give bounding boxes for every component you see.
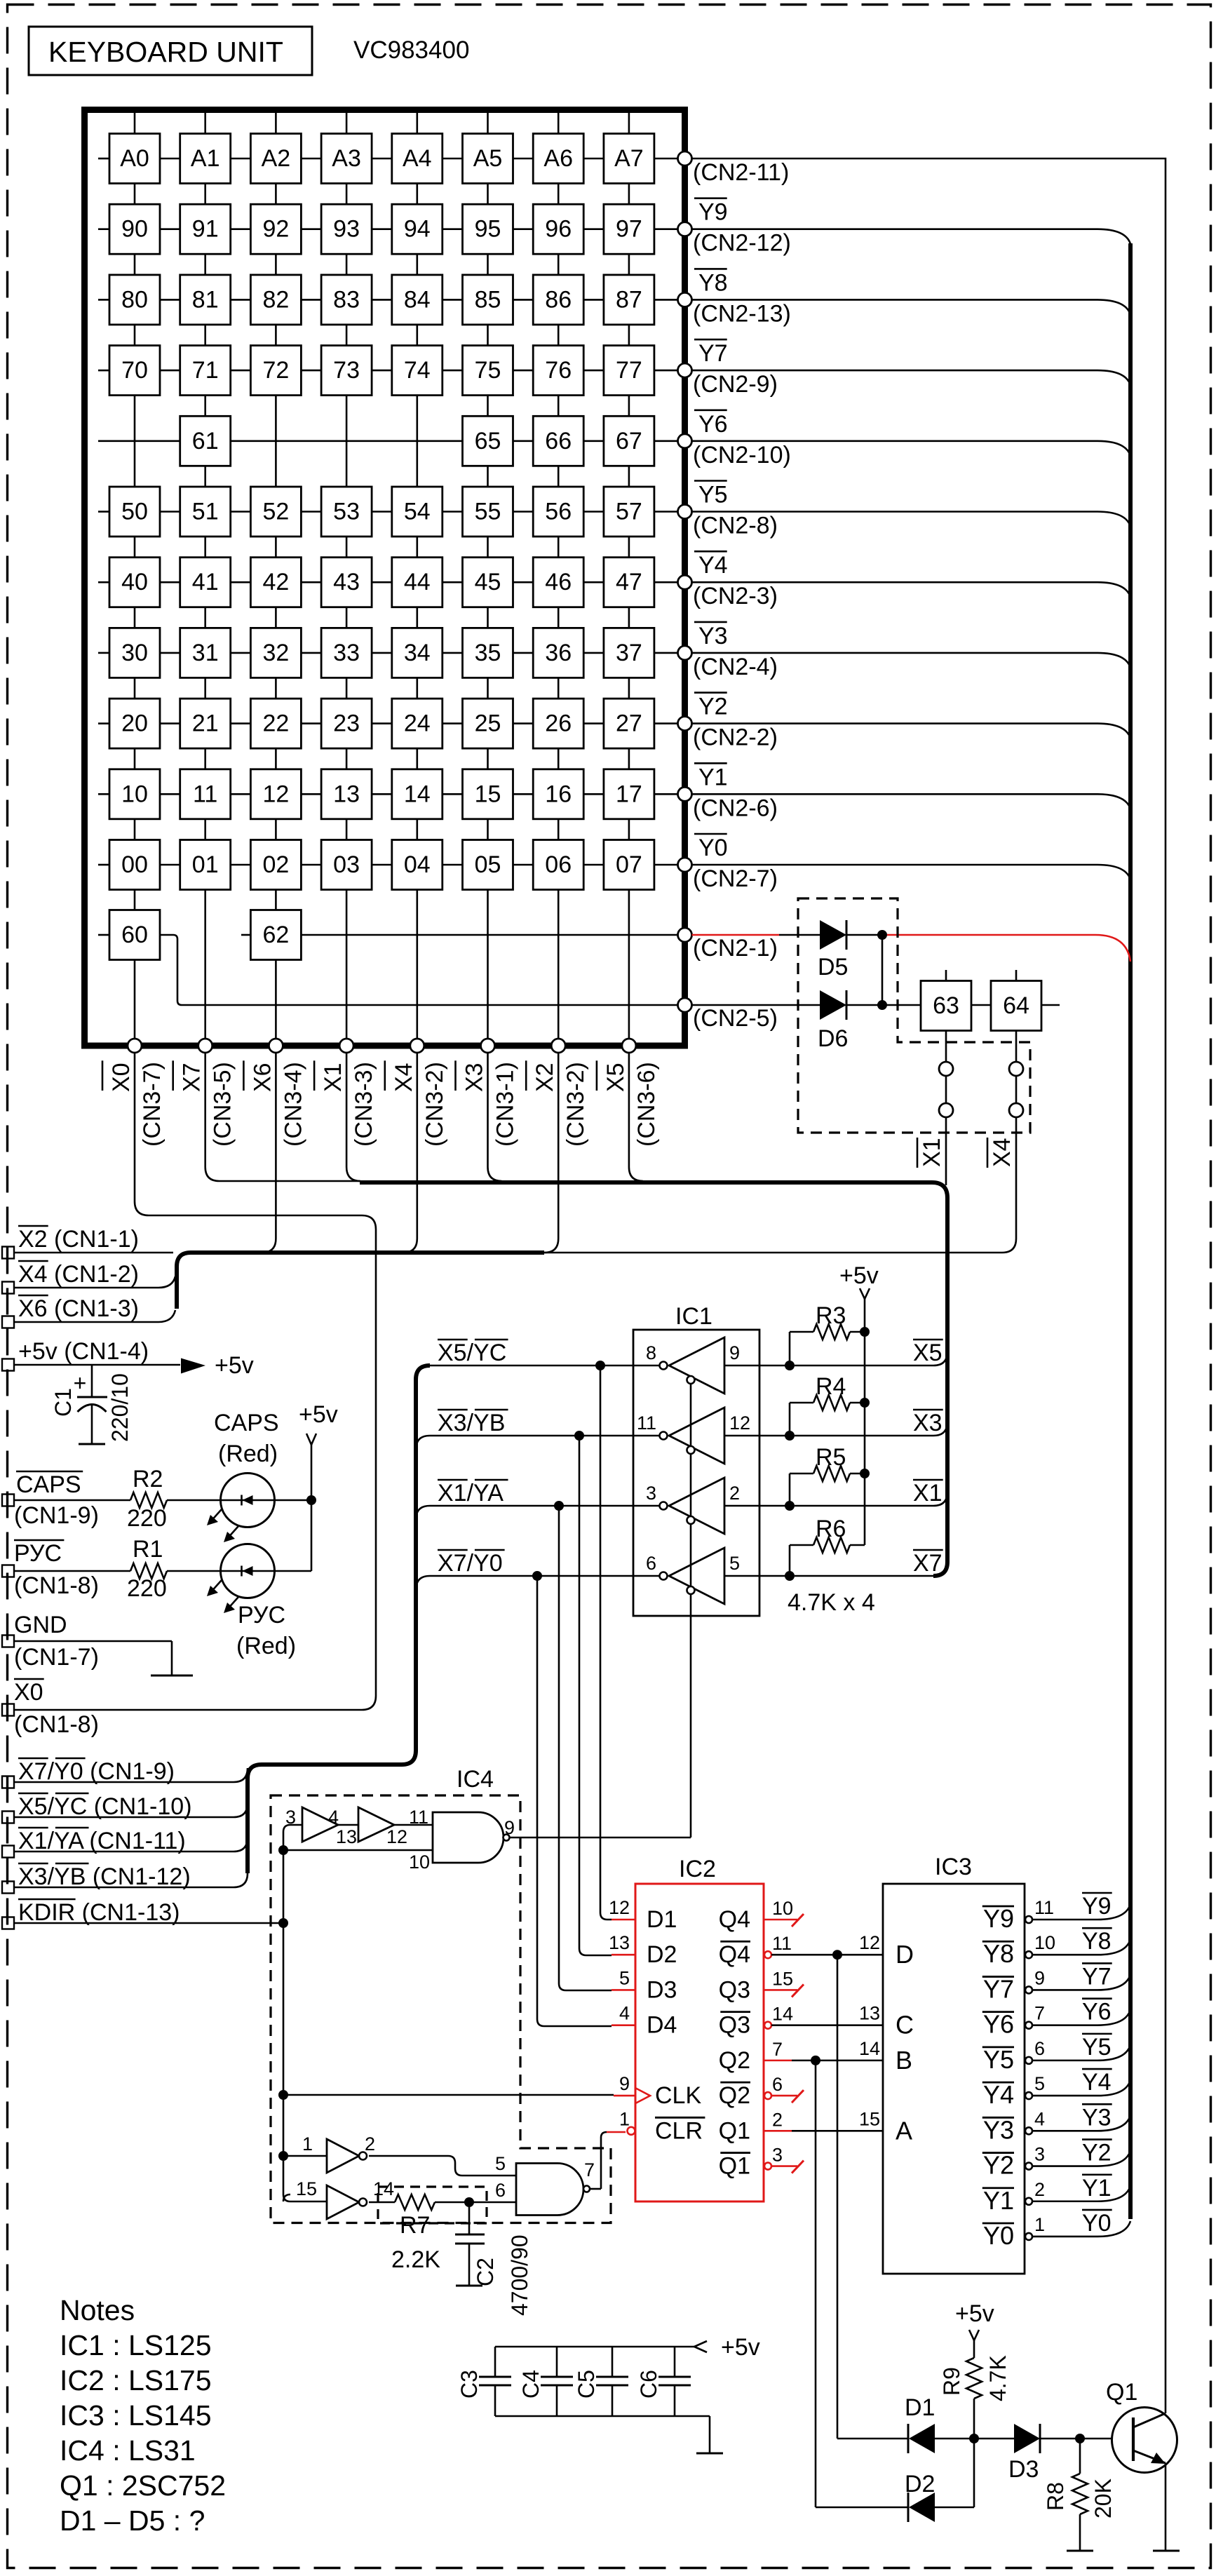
svg-text:11: 11 — [1034, 1897, 1054, 1918]
svg-text:X1: X1 — [919, 1138, 945, 1167]
svg-text:A0: A0 — [120, 145, 149, 172]
svg-text:(CN3-4): (CN3-4) — [280, 1062, 306, 1147]
svg-text:Y1: Y1 — [1082, 2175, 1112, 2201]
svg-text:12: 12 — [262, 781, 289, 807]
svg-text:X7: X7 — [179, 1063, 205, 1092]
svg-text:27: 27 — [616, 710, 642, 737]
svg-text:D1: D1 — [647, 1906, 677, 1933]
svg-text:(CN1-8): (CN1-8) — [14, 1711, 99, 1738]
svg-text:Q1: Q1 — [1106, 2379, 1137, 2406]
svg-text:11: 11 — [193, 781, 217, 807]
svg-text:Q1: Q1 — [719, 2117, 750, 2144]
svg-text:23: 23 — [333, 710, 360, 737]
svg-text:Y2: Y2 — [983, 2151, 1014, 2180]
svg-text:45: 45 — [475, 569, 501, 595]
svg-text:Y3: Y3 — [983, 2115, 1014, 2144]
svg-text:67: 67 — [616, 428, 642, 454]
svg-text:47: 47 — [616, 569, 642, 595]
svg-text:4: 4 — [328, 1807, 339, 1828]
svg-text:54: 54 — [404, 499, 431, 525]
svg-text:D1: D1 — [905, 2394, 935, 2421]
svg-text:17: 17 — [616, 781, 642, 807]
svg-text:31: 31 — [192, 640, 219, 666]
svg-text:72: 72 — [262, 357, 289, 384]
svg-text:3: 3 — [646, 1483, 656, 1504]
svg-text:(CN3-6): (CN3-6) — [633, 1062, 660, 1147]
svg-text:D5: D5 — [818, 954, 848, 980]
svg-text:(Red): (Red) — [236, 1633, 296, 1659]
svg-text:60: 60 — [121, 922, 148, 948]
svg-text:Y1: Y1 — [698, 764, 728, 790]
svg-text:3: 3 — [285, 1807, 296, 1828]
svg-text:X1: X1 — [320, 1063, 346, 1092]
svg-text:35: 35 — [475, 640, 501, 666]
svg-text:(CN2-11): (CN2-11) — [693, 159, 789, 186]
svg-text:C4: C4 — [518, 2370, 543, 2399]
svg-text:02: 02 — [262, 851, 289, 878]
svg-text:06: 06 — [545, 851, 572, 878]
svg-text:33: 33 — [333, 640, 360, 666]
svg-text:R4: R4 — [816, 1373, 846, 1400]
svg-text:82: 82 — [262, 286, 289, 313]
svg-text:5: 5 — [1034, 2073, 1045, 2094]
svg-text:X5: X5 — [913, 1340, 943, 1366]
svg-text:Y7: Y7 — [1082, 1963, 1112, 1990]
svg-text:64: 64 — [1003, 992, 1029, 1019]
svg-text:+5v: +5v — [839, 1262, 879, 1289]
svg-text:(CN3-3): (CN3-3) — [351, 1062, 377, 1147]
svg-text:84: 84 — [404, 286, 431, 313]
svg-text:Y6: Y6 — [983, 2010, 1014, 2039]
svg-text:Y8: Y8 — [1082, 1928, 1112, 1955]
svg-text:IC4 : LS31: IC4 : LS31 — [60, 2434, 196, 2467]
svg-text:A4: A4 — [403, 145, 432, 172]
svg-text:10: 10 — [772, 1898, 793, 1919]
svg-text:5: 5 — [729, 1553, 740, 1574]
svg-text:5: 5 — [495, 2153, 506, 2174]
svg-text:Y4: Y4 — [1082, 2069, 1112, 2096]
svg-text:(CN2-13): (CN2-13) — [693, 300, 791, 327]
svg-text:KEYBOARD UNIT: KEYBOARD UNIT — [48, 36, 283, 68]
svg-text:4: 4 — [1034, 2108, 1045, 2129]
svg-text:Y9: Y9 — [983, 1904, 1014, 1933]
svg-text:61: 61 — [192, 428, 219, 454]
svg-text:63: 63 — [933, 992, 959, 1019]
svg-text:5: 5 — [619, 1967, 630, 1988]
svg-text:8: 8 — [646, 1342, 656, 1363]
svg-text:Y7: Y7 — [983, 1974, 1014, 2003]
svg-text:CLK: CLK — [655, 2082, 701, 2109]
svg-text:12: 12 — [609, 1897, 630, 1918]
svg-text:6: 6 — [495, 2180, 506, 2201]
svg-text:X7/Y0: X7/Y0 — [438, 1550, 503, 1577]
svg-text:R1: R1 — [133, 1536, 163, 1563]
svg-text:X5: X5 — [602, 1063, 629, 1092]
svg-text:10: 10 — [121, 781, 148, 807]
svg-text:2.2K: 2.2K — [391, 2246, 440, 2273]
svg-text:07: 07 — [616, 851, 642, 878]
svg-text:Y3: Y3 — [698, 623, 728, 649]
svg-text:IC4: IC4 — [457, 1766, 494, 1793]
svg-text:9: 9 — [504, 1817, 515, 1838]
svg-text:C3: C3 — [457, 2370, 482, 2399]
svg-text:X5/YC (CN1-10): X5/YC (CN1-10) — [18, 1793, 192, 1820]
svg-text:A: A — [896, 2116, 912, 2145]
svg-text:3: 3 — [1034, 2144, 1045, 2165]
svg-text:VC983400: VC983400 — [353, 36, 469, 64]
svg-text:56: 56 — [545, 499, 572, 525]
svg-text:Q2: Q2 — [719, 2082, 750, 2109]
svg-text:IC3: IC3 — [935, 1854, 972, 1880]
svg-text:Y7: Y7 — [698, 340, 728, 367]
svg-text:X7/Y0 (CN1-9): X7/Y0 (CN1-9) — [18, 1758, 175, 1785]
svg-text:X1/YA (CN1-11): X1/YA (CN1-11) — [18, 1828, 186, 1854]
svg-text:X3/YB (CN1-12): X3/YB (CN1-12) — [18, 1863, 191, 1890]
svg-text:14: 14 — [404, 781, 431, 807]
svg-text:11: 11 — [637, 1412, 656, 1434]
svg-text:41: 41 — [192, 569, 219, 595]
svg-text:16: 16 — [545, 781, 572, 807]
svg-text:2: 2 — [365, 2133, 375, 2154]
svg-text:+5v: +5v — [955, 2300, 994, 2327]
svg-text:РУС: РУС — [14, 1540, 62, 1567]
svg-text:11: 11 — [772, 1933, 792, 1954]
svg-text:36: 36 — [545, 640, 572, 666]
svg-text:IC2: IC2 — [679, 1856, 716, 1882]
svg-text:A7: A7 — [614, 145, 644, 172]
svg-text:43: 43 — [333, 569, 360, 595]
svg-text:(CN3-7): (CN3-7) — [139, 1062, 165, 1147]
svg-text:74: 74 — [404, 357, 431, 384]
svg-text:CLR: CLR — [655, 2117, 703, 2144]
svg-text:Q2: Q2 — [719, 2047, 750, 2074]
svg-text:Y0: Y0 — [1082, 2210, 1112, 2237]
svg-text:Y5: Y5 — [983, 2045, 1014, 2074]
svg-text:Y0: Y0 — [983, 2221, 1014, 2250]
svg-text:94: 94 — [404, 216, 431, 243]
svg-text:D: D — [896, 1940, 914, 1969]
svg-text:X6 (CN1-3): X6 (CN1-3) — [18, 1295, 139, 1322]
svg-text:(CN2-1): (CN2-1) — [693, 935, 778, 962]
svg-text:R6: R6 — [816, 1516, 846, 1542]
svg-text:X1: X1 — [913, 1480, 943, 1506]
svg-text:Y3: Y3 — [1082, 2104, 1112, 2131]
svg-text:2: 2 — [772, 2109, 783, 2130]
svg-text:IC1 : LS125: IC1 : LS125 — [60, 2329, 212, 2361]
svg-text:Q4: Q4 — [719, 1906, 750, 1933]
svg-text:C2: C2 — [473, 2258, 498, 2286]
svg-text:(CN2-2): (CN2-2) — [693, 724, 778, 751]
svg-text:KDIR (CN1-13): KDIR (CN1-13) — [18, 1899, 180, 1926]
svg-text:X3: X3 — [913, 1410, 943, 1436]
svg-text:01: 01 — [192, 851, 219, 878]
svg-text:4: 4 — [619, 2003, 630, 2024]
svg-text:34: 34 — [404, 640, 431, 666]
svg-text:4.7K x 4: 4.7K x 4 — [788, 1589, 875, 1616]
svg-text:X7: X7 — [913, 1550, 943, 1577]
svg-text:D2: D2 — [647, 1941, 677, 1968]
svg-text:40: 40 — [121, 569, 148, 595]
svg-text:2: 2 — [1034, 2179, 1045, 2200]
svg-text:(CN2-6): (CN2-6) — [693, 795, 778, 821]
svg-text:12: 12 — [729, 1412, 750, 1434]
svg-text:4700/90: 4700/90 — [507, 2234, 532, 2316]
svg-text:44: 44 — [404, 569, 431, 595]
svg-text:(CN2-3): (CN2-3) — [693, 583, 778, 609]
svg-text:C: C — [896, 2011, 914, 2039]
svg-text:87: 87 — [616, 286, 642, 313]
svg-text:70: 70 — [121, 357, 148, 384]
svg-text:A1: A1 — [191, 145, 220, 172]
svg-text:D4: D4 — [647, 2012, 677, 2039]
svg-text:4.7K: 4.7K — [985, 2355, 1011, 2401]
svg-text:R8: R8 — [1043, 2482, 1068, 2511]
svg-text:(CN2-10): (CN2-10) — [693, 442, 791, 468]
svg-text:A5: A5 — [473, 145, 503, 172]
svg-text:Q3: Q3 — [719, 1976, 750, 2003]
svg-text:X4 (CN1-2): X4 (CN1-2) — [18, 1261, 139, 1288]
svg-text:1: 1 — [619, 2108, 630, 2129]
svg-text:(CN1-8): (CN1-8) — [14, 1572, 99, 1599]
svg-text:X2: X2 — [532, 1063, 558, 1092]
svg-text:220: 220 — [127, 1575, 167, 1602]
svg-text:(Red): (Red) — [218, 1441, 278, 1467]
svg-text:11: 11 — [409, 1807, 428, 1828]
svg-text:66: 66 — [545, 428, 572, 454]
svg-text:71: 71 — [192, 357, 219, 384]
svg-text:IC1: IC1 — [675, 1303, 712, 1330]
svg-text:Y6: Y6 — [1082, 1999, 1112, 2025]
svg-text:CAPS: CAPS — [16, 1471, 81, 1498]
svg-text:Q1 : 2SC752: Q1 : 2SC752 — [60, 2469, 226, 2502]
svg-text:(CN2-8): (CN2-8) — [693, 513, 778, 539]
svg-text:Q3: Q3 — [719, 2012, 750, 2039]
svg-text:GND: GND — [14, 1612, 67, 1638]
svg-text:37: 37 — [616, 640, 642, 666]
svg-text:X4: X4 — [391, 1063, 417, 1092]
svg-text:77: 77 — [616, 357, 642, 384]
svg-text:15: 15 — [296, 2178, 317, 2199]
svg-text:Y2: Y2 — [1082, 2140, 1112, 2166]
svg-text:12: 12 — [859, 1932, 880, 1953]
svg-text:R9: R9 — [939, 2367, 964, 2396]
svg-text:14: 14 — [772, 2004, 793, 2025]
svg-text:X4: X4 — [989, 1138, 1015, 1167]
svg-text:7: 7 — [772, 2039, 783, 2060]
svg-text:+5v: +5v — [215, 1352, 254, 1379]
svg-text:10: 10 — [1034, 1932, 1055, 1953]
svg-text:Y2: Y2 — [698, 694, 728, 720]
svg-text:R3: R3 — [816, 1302, 846, 1329]
svg-text:10: 10 — [409, 1852, 430, 1873]
svg-text:D3: D3 — [647, 1976, 677, 2003]
svg-text:Y6: Y6 — [698, 411, 728, 438]
svg-text:15: 15 — [475, 781, 501, 807]
svg-text:65: 65 — [475, 428, 501, 454]
svg-text:D2: D2 — [905, 2471, 935, 2497]
svg-text:(CN1-7): (CN1-7) — [14, 1644, 99, 1671]
svg-text:(CN1-9): (CN1-9) — [14, 1502, 99, 1529]
svg-text:42: 42 — [262, 569, 289, 595]
svg-text:26: 26 — [545, 710, 572, 737]
svg-text:62: 62 — [262, 922, 289, 948]
svg-text:9: 9 — [1034, 1967, 1045, 1988]
svg-text:05: 05 — [475, 851, 501, 878]
svg-text:R7: R7 — [400, 2212, 430, 2239]
svg-text:91: 91 — [192, 216, 219, 243]
svg-text:1: 1 — [1034, 2214, 1045, 2235]
svg-text:9: 9 — [729, 1342, 740, 1363]
svg-text:+5v (CN1-4): +5v (CN1-4) — [18, 1338, 149, 1365]
svg-text:X2 (CN1-1): X2 (CN1-1) — [18, 1226, 139, 1253]
svg-text:+5v: +5v — [299, 1401, 338, 1428]
svg-text:R2: R2 — [133, 1466, 163, 1492]
svg-text:D6: D6 — [818, 1025, 848, 1052]
svg-text:CAPS: CAPS — [214, 1410, 279, 1436]
svg-text:Notes: Notes — [60, 2294, 135, 2326]
svg-text:73: 73 — [333, 357, 360, 384]
svg-text:57: 57 — [616, 499, 642, 525]
svg-text:13: 13 — [859, 2003, 880, 2024]
svg-text:Y9: Y9 — [1082, 1893, 1112, 1920]
svg-text:Y9: Y9 — [698, 199, 728, 226]
svg-text:14: 14 — [373, 2178, 394, 2199]
svg-text:2: 2 — [729, 1483, 740, 1504]
svg-text:97: 97 — [616, 216, 642, 243]
svg-text:13: 13 — [609, 1932, 630, 1953]
svg-text:R5: R5 — [816, 1444, 846, 1471]
svg-text:7: 7 — [584, 2159, 595, 2180]
svg-text:IC3 : LS145: IC3 : LS145 — [60, 2399, 212, 2432]
svg-text:(CN2-7): (CN2-7) — [693, 865, 778, 892]
svg-text:13: 13 — [333, 781, 360, 807]
svg-text:53: 53 — [333, 499, 360, 525]
svg-text:+5v: +5v — [721, 2334, 760, 2361]
svg-text:14: 14 — [859, 2038, 880, 2059]
svg-text:12: 12 — [386, 1826, 407, 1847]
svg-text:A2: A2 — [262, 145, 291, 172]
svg-text:86: 86 — [545, 286, 572, 313]
svg-text:24: 24 — [404, 710, 431, 737]
svg-text:32: 32 — [262, 640, 289, 666]
svg-text:220/10: 220/10 — [107, 1373, 133, 1442]
svg-text:(CN3-5): (CN3-5) — [210, 1062, 236, 1147]
svg-text:(CN2-12): (CN2-12) — [693, 230, 791, 257]
svg-text:A6: A6 — [543, 145, 573, 172]
svg-text:C1: C1 — [50, 1388, 76, 1417]
svg-text:IC2 : LS175: IC2 : LS175 — [60, 2364, 212, 2396]
svg-text:76: 76 — [545, 357, 572, 384]
svg-text:Y5: Y5 — [1082, 2034, 1112, 2061]
svg-text:6: 6 — [646, 1553, 656, 1574]
svg-text:20K: 20K — [1090, 2479, 1116, 2518]
svg-text:03: 03 — [333, 851, 360, 878]
svg-text:81: 81 — [192, 286, 219, 313]
svg-text:95: 95 — [475, 216, 501, 243]
svg-text:52: 52 — [262, 499, 289, 525]
svg-text:X5/YC: X5/YC — [438, 1340, 506, 1366]
svg-text:X3/YB: X3/YB — [438, 1410, 505, 1436]
svg-text:Y1: Y1 — [983, 2186, 1014, 2215]
svg-text:(CN3-2): (CN3-2) — [421, 1062, 448, 1147]
svg-text:X6: X6 — [249, 1063, 276, 1092]
svg-text:30: 30 — [121, 640, 148, 666]
svg-text:21: 21 — [192, 710, 219, 737]
svg-text:(CN3-2): (CN3-2) — [562, 1062, 589, 1147]
svg-text:C5: C5 — [574, 2370, 599, 2399]
svg-text:83: 83 — [333, 286, 360, 313]
svg-text:Y8: Y8 — [983, 1939, 1014, 1968]
svg-text:3: 3 — [772, 2145, 783, 2166]
svg-text:7: 7 — [1034, 2003, 1045, 2024]
svg-text:51: 51 — [192, 499, 219, 525]
svg-text:X0: X0 — [14, 1679, 43, 1706]
svg-text:93: 93 — [333, 216, 360, 243]
svg-text:04: 04 — [404, 851, 431, 878]
svg-text:92: 92 — [262, 216, 289, 243]
svg-text:D3: D3 — [1008, 2456, 1039, 2483]
svg-text:Y0: Y0 — [698, 835, 728, 861]
svg-text:A3: A3 — [332, 145, 361, 172]
svg-text:6: 6 — [772, 2074, 783, 2095]
svg-text:РУС: РУС — [238, 1602, 285, 1628]
svg-text:1: 1 — [302, 2133, 313, 2154]
svg-text:X1/YA: X1/YA — [438, 1480, 504, 1506]
svg-text:220: 220 — [127, 1505, 167, 1532]
svg-text:85: 85 — [475, 286, 501, 313]
svg-text:55: 55 — [475, 499, 501, 525]
svg-text:Y4: Y4 — [698, 552, 728, 579]
svg-text:00: 00 — [121, 851, 148, 878]
svg-text:C6: C6 — [636, 2370, 661, 2399]
svg-text:13: 13 — [336, 1826, 357, 1847]
svg-text:X0: X0 — [108, 1063, 135, 1092]
svg-text:15: 15 — [772, 1968, 793, 1989]
svg-text:46: 46 — [545, 569, 572, 595]
svg-text:D1 – D5 : ?: D1 – D5 : ? — [60, 2504, 205, 2537]
svg-text:Q4: Q4 — [719, 1941, 750, 1968]
svg-text:B: B — [896, 2046, 912, 2075]
svg-text:9: 9 — [619, 2073, 630, 2094]
svg-text:50: 50 — [121, 499, 148, 525]
svg-text:Y8: Y8 — [698, 269, 728, 296]
svg-text:Y4: Y4 — [983, 2080, 1014, 2109]
svg-text:X3: X3 — [461, 1063, 488, 1092]
svg-text:(CN2-4): (CN2-4) — [693, 654, 778, 680]
svg-text:20: 20 — [121, 710, 148, 737]
svg-text:25: 25 — [475, 710, 501, 737]
svg-text:96: 96 — [545, 216, 572, 243]
svg-text:Q1: Q1 — [719, 2153, 750, 2180]
svg-text:15: 15 — [859, 2108, 880, 2129]
svg-text:(CN3-1): (CN3-1) — [492, 1062, 519, 1147]
svg-text:Y5: Y5 — [698, 482, 728, 508]
svg-text:75: 75 — [475, 357, 501, 384]
svg-text:80: 80 — [121, 286, 148, 313]
svg-text:(CN2-9): (CN2-9) — [693, 371, 778, 398]
svg-text:6: 6 — [1034, 2038, 1045, 2059]
svg-text:(CN2-5): (CN2-5) — [693, 1005, 778, 1032]
svg-text:90: 90 — [121, 216, 148, 243]
svg-text:22: 22 — [262, 710, 289, 737]
